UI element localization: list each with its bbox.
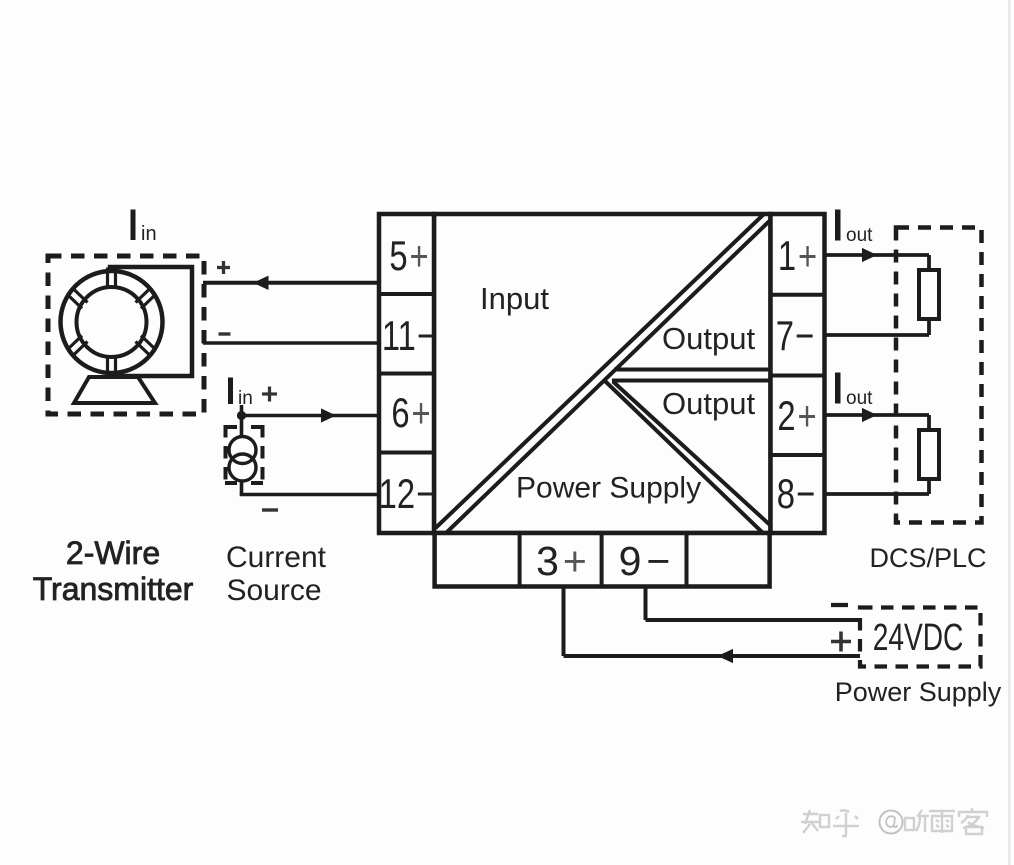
svg-text:5+: 5+ <box>389 232 428 279</box>
svg-text:6+: 6+ <box>391 389 430 436</box>
arrowhead toward terminal 3 <box>718 649 734 663</box>
isolation barrier diagonal (input) line A <box>436 214 765 528</box>
terminal 3 lead down <box>562 587 566 657</box>
resistor load 2 <box>919 430 939 479</box>
power supply barrier diagonal line B <box>605 381 763 533</box>
svg-text:Source: Source <box>226 574 321 607</box>
output channels separator horizontal line A <box>614 368 770 372</box>
label I in + (current source) <box>228 378 277 410</box>
svg-text:Output: Output <box>662 386 755 421</box>
resistor load 1 <box>919 270 939 319</box>
svg-text:Power Supply: Power Supply <box>835 677 1002 707</box>
svg-text:Power Supply: Power Supply <box>516 472 701 505</box>
bottom terminal row <box>435 533 770 587</box>
svg-text:in: in <box>141 223 157 245</box>
current source upper lead <box>240 405 244 438</box>
svg-text:Transmitter: Transmitter <box>33 571 194 607</box>
arrowhead toward load 1 <box>862 248 877 262</box>
output channels separator horizontal line B <box>612 379 770 383</box>
current source dashed bracket box <box>225 425 263 485</box>
page right edge line <box>1008 0 1011 865</box>
label I in (transmitter) <box>131 210 157 246</box>
2-wire transmitter dashed enclosure <box>48 256 204 414</box>
svg-text:1+: 1+ <box>778 232 817 279</box>
transmitter ring outer circle <box>61 271 163 373</box>
wire transmitter + to terminal 5 <box>203 281 379 285</box>
load 2 bottom lead <box>927 479 931 494</box>
arrowhead toward load 2 <box>862 408 877 422</box>
load 1 top lead <box>927 255 931 270</box>
arrowhead toward terminal 6 <box>321 408 336 422</box>
wire load 2 to terminal 8 <box>825 492 930 496</box>
transmitter base trapezoid <box>74 377 155 403</box>
label - (transmitter wire) <box>219 332 231 335</box>
load 1 bottom lead <box>927 319 931 335</box>
svg-text:8−: 8− <box>777 470 816 517</box>
wire current source + to terminal 6 <box>242 414 380 418</box>
wire 24VDC + to terminal 3 <box>564 654 861 658</box>
current source lower lead <box>240 481 244 495</box>
DCS/PLC dashed enclosure <box>896 228 982 523</box>
wire terminal 1 to load 1 <box>825 253 930 257</box>
svg-text:Output: Output <box>662 321 755 356</box>
transmitter mounting plate rectangle <box>110 267 192 376</box>
svg-text:Input: Input <box>480 281 549 316</box>
transmitter ring inner circle <box>77 287 147 357</box>
svg-text:24VDC: 24VDC <box>873 617 964 659</box>
wire terminal 9 to 24VDC - <box>646 618 861 622</box>
svg-text:2+: 2+ <box>777 392 816 439</box>
terminal 9 lead down <box>644 587 648 621</box>
watermark zhihu <box>801 808 988 836</box>
current source circle 1 <box>229 437 256 464</box>
isolation barrier diagonal (input) line B <box>446 220 771 533</box>
arrowhead toward transmitter <box>253 276 269 290</box>
label - (24VDC) <box>831 603 848 607</box>
left terminal column <box>379 214 434 533</box>
svg-text:out: out <box>846 225 873 246</box>
isolator main body <box>434 214 771 533</box>
svg-text:2-Wire: 2-Wire <box>66 535 160 571</box>
ring tick marks <box>68 268 156 377</box>
label I out (channel 1) <box>835 210 873 247</box>
svg-text:7−: 7− <box>776 312 815 359</box>
wire terminal 2 to load 2 <box>825 413 930 417</box>
label + (24VDC) <box>831 632 851 652</box>
label I out (channel 2) <box>835 373 873 410</box>
wire load 1 to terminal 7 <box>825 333 930 337</box>
wire current source - to terminal 12 <box>240 493 379 497</box>
right terminal column <box>771 214 825 533</box>
label + (transmitter wire) <box>217 261 230 274</box>
power supply barrier diagonal line A <box>613 382 770 526</box>
svg-text:Current: Current <box>226 541 327 574</box>
svg-text:12−: 12− <box>379 470 436 517</box>
svg-text:out: out <box>846 388 873 409</box>
24VDC power source dashed box <box>860 608 981 667</box>
node junction dot <box>237 411 246 420</box>
svg-text:11−: 11− <box>382 312 436 359</box>
current source circle 2 <box>229 454 256 481</box>
label - (current source) <box>262 508 278 511</box>
load 2 top lead <box>927 415 931 430</box>
wire transmitter - to terminal 11 <box>203 341 379 345</box>
svg-text:DCS/PLC: DCS/PLC <box>869 543 986 573</box>
